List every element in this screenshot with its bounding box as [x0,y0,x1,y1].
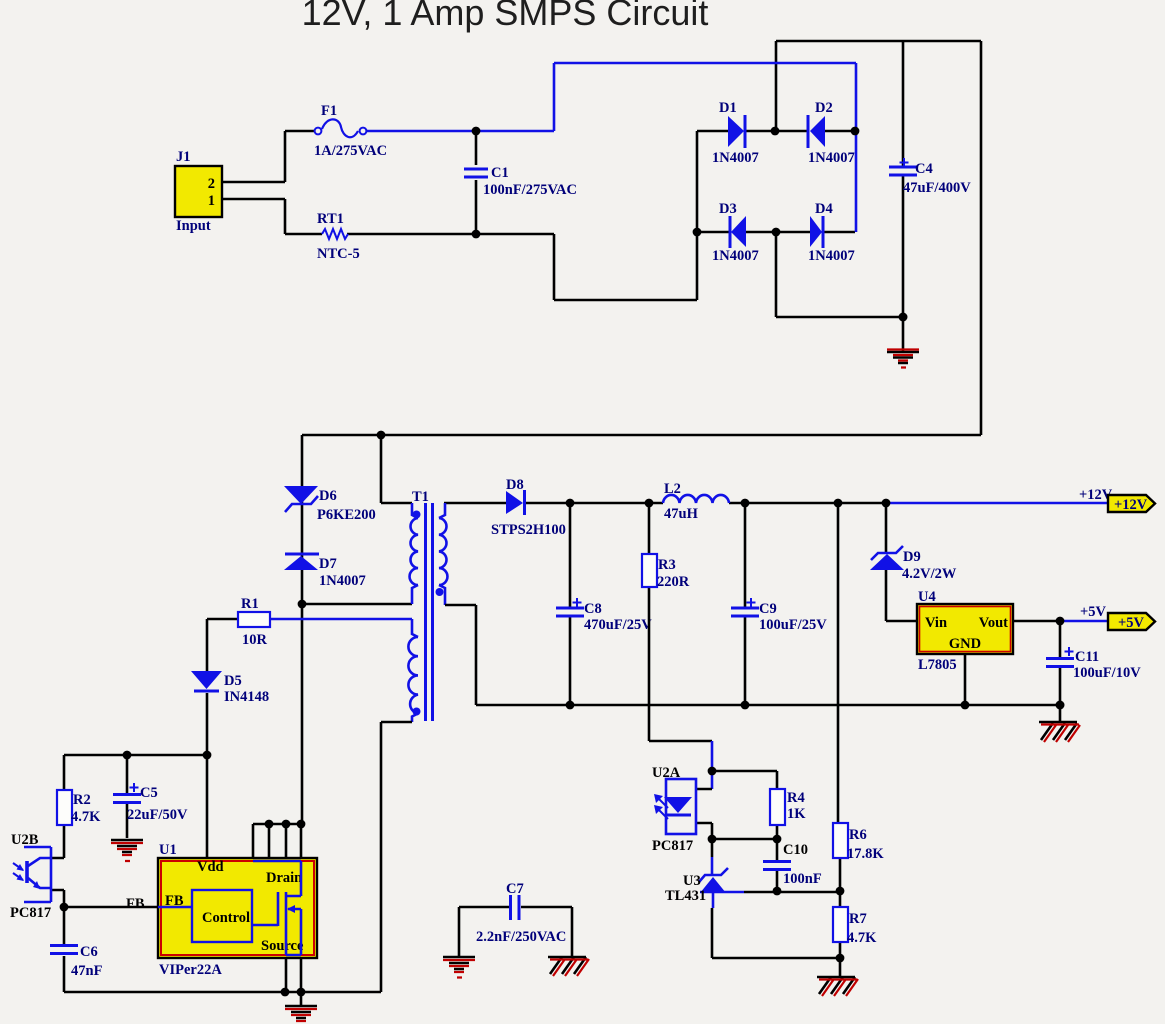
svg-text:R2: R2 [73,792,91,808]
svg-text:D5: D5 [224,673,242,689]
svg-text:U3: U3 [683,873,701,889]
svg-text:1N4007: 1N4007 [712,248,759,264]
svg-text:Input: Input [176,218,211,234]
svg-text:D9: D9 [903,549,921,565]
svg-text:+5V: +5V [1118,615,1145,631]
svg-text:U2A: U2A [652,765,681,781]
svg-text:Vin: Vin [925,615,947,631]
svg-text:NTC-5: NTC-5 [317,246,360,262]
svg-text:C9: C9 [759,601,777,617]
svg-text:100uF/25V: 100uF/25V [759,617,827,633]
svg-text:D1: D1 [719,100,737,116]
svg-text:P6KE200: P6KE200 [317,507,376,523]
svg-text:D2: D2 [815,100,833,116]
svg-text:R1: R1 [241,596,259,612]
svg-text:R3: R3 [658,557,676,573]
svg-text:1: 1 [208,193,215,209]
svg-text:1N4007: 1N4007 [808,248,855,264]
svg-text:D8: D8 [506,477,524,493]
svg-text:+5V: +5V [1080,604,1107,620]
svg-text:2: 2 [208,176,215,192]
svg-text:1N4007: 1N4007 [808,150,855,166]
svg-text:D7: D7 [319,556,337,572]
svg-text:470uF/25V: 470uF/25V [584,617,652,633]
svg-text:Vdd: Vdd [197,859,224,875]
svg-text:L7805: L7805 [918,657,957,673]
svg-text:STPS2H100: STPS2H100 [491,522,566,538]
svg-text:U1: U1 [159,842,177,858]
svg-text:PC817: PC817 [10,905,51,921]
svg-text:IN4148: IN4148 [224,689,269,705]
svg-text:Source: Source [261,938,304,954]
svg-text:TL431: TL431 [665,888,706,904]
svg-text:U4: U4 [918,589,936,605]
svg-text:J1: J1 [176,149,191,165]
svg-text:L2: L2 [664,481,681,497]
svg-text:R7: R7 [849,911,867,927]
svg-text:C8: C8 [584,601,602,617]
svg-text:C1: C1 [491,165,509,181]
svg-text:4.2V/2W: 4.2V/2W [902,566,957,582]
svg-text:RT1: RT1 [317,211,344,227]
svg-text:R6: R6 [849,827,867,843]
svg-text:VIPer22A: VIPer22A [159,962,222,978]
svg-text:4.7K: 4.7K [71,809,101,825]
svg-text:+12V: +12V [1114,497,1148,513]
svg-text:47uF/400V: 47uF/400V [903,180,971,196]
svg-text:47nF: 47nF [71,963,103,979]
svg-text:220R: 220R [657,574,690,590]
svg-text:C11: C11 [1075,649,1099,665]
svg-text:C10: C10 [783,842,808,858]
svg-text:100nF: 100nF [783,871,822,887]
svg-text:GND: GND [949,636,981,652]
svg-text:D6: D6 [319,488,337,504]
svg-text:1N4007: 1N4007 [712,150,759,166]
svg-text:PC817: PC817 [652,838,693,854]
svg-text:C7: C7 [506,881,524,897]
svg-text:F1: F1 [321,103,337,119]
svg-text:FB: FB [126,896,145,912]
svg-text:22uF/50V: 22uF/50V [127,807,188,823]
svg-text:T1: T1 [412,489,429,505]
svg-text:1A/275VAC: 1A/275VAC [314,143,387,159]
svg-text:1N4007: 1N4007 [319,573,366,589]
svg-text:Vout: Vout [979,615,1008,631]
svg-text:R4: R4 [787,790,805,806]
svg-text:D3: D3 [719,201,737,217]
svg-text:100nF/275VAC: 100nF/275VAC [483,182,577,198]
svg-text:2.2nF/250VAC: 2.2nF/250VAC [476,929,566,945]
svg-text:C6: C6 [80,944,98,960]
svg-text:100uF/10V: 100uF/10V [1073,665,1141,681]
svg-text:1K: 1K [787,806,806,822]
svg-text:D4: D4 [815,201,833,217]
svg-text:17.8K: 17.8K [847,846,884,862]
svg-text:47uH: 47uH [664,506,699,522]
svg-text:C5: C5 [140,785,158,801]
svg-text:Drain: Drain [266,870,302,886]
svg-text:10R: 10R [242,632,268,648]
svg-text:C4: C4 [915,161,933,177]
svg-text:4.7K: 4.7K [847,930,877,946]
svg-text:12V, 1 Amp SMPS Circuit: 12V, 1 Amp SMPS Circuit [302,0,709,33]
svg-text:U2B: U2B [11,832,39,848]
svg-text:Control: Control [202,910,250,926]
